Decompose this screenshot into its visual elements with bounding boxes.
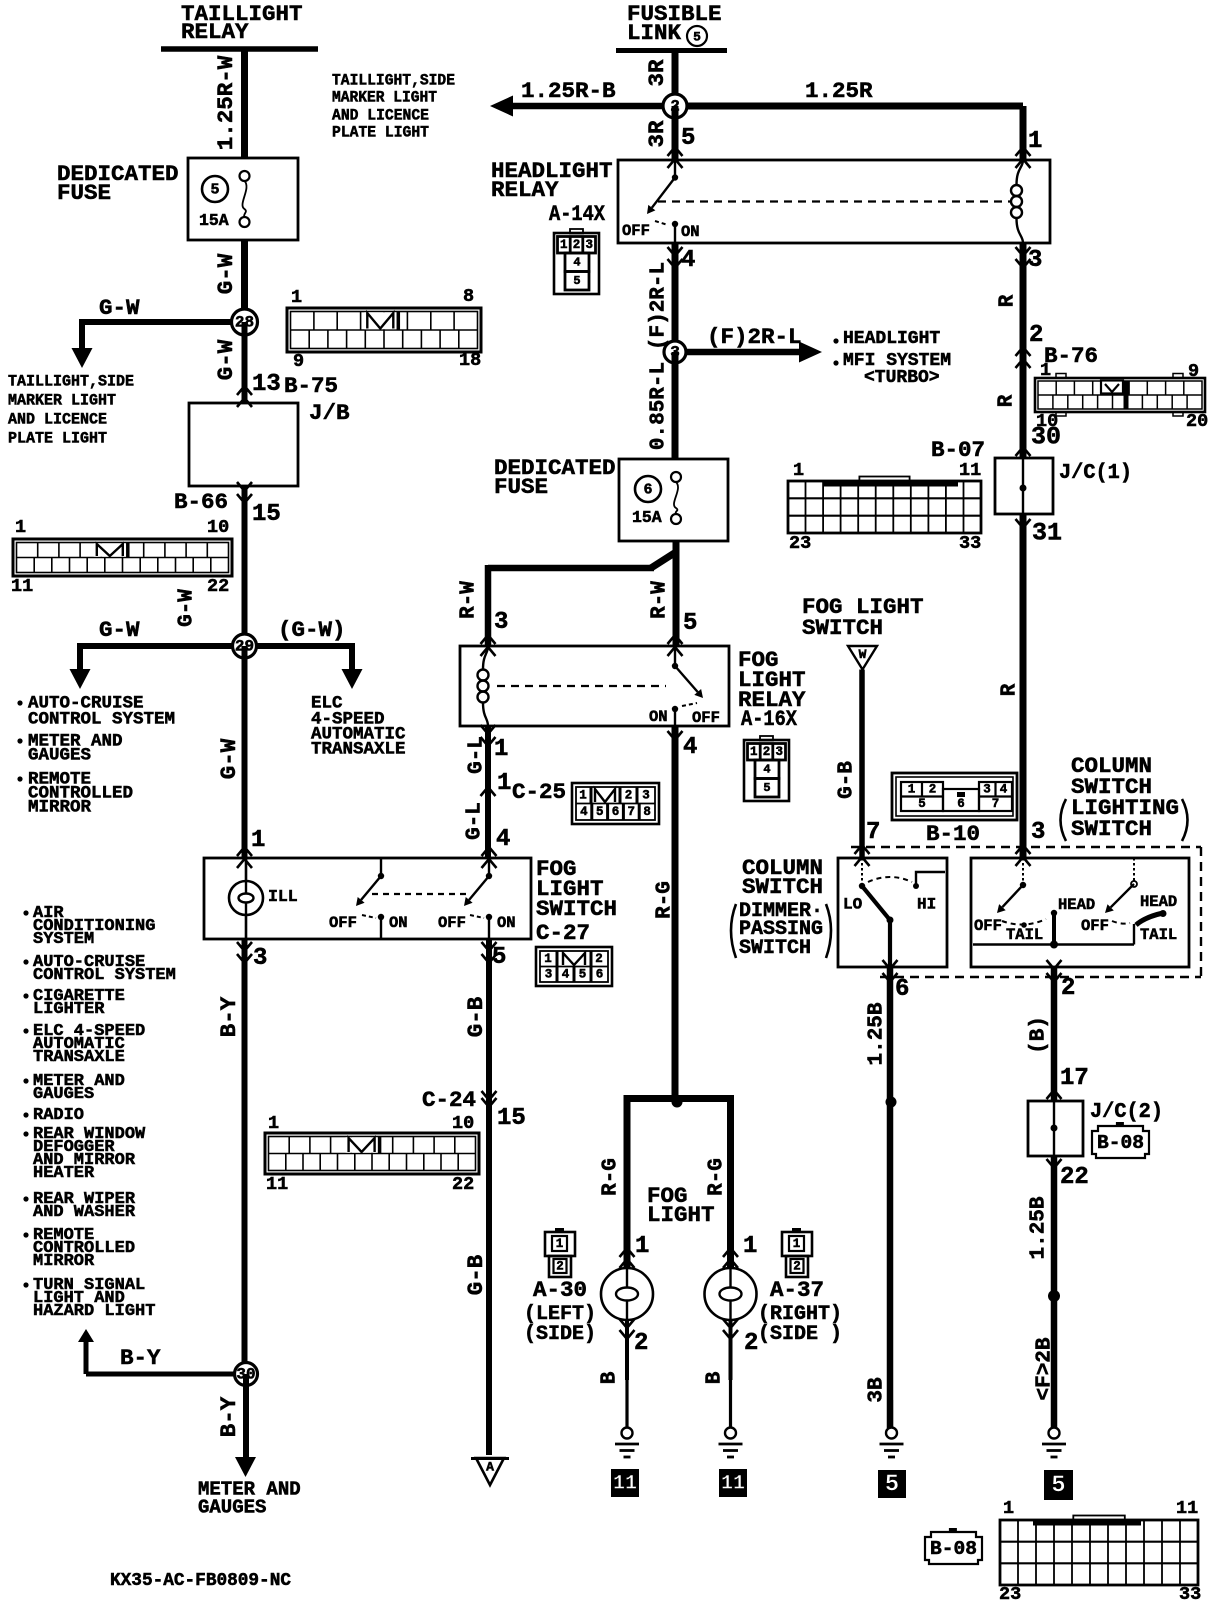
svg-text:R-G: R-G: [706, 1158, 729, 1196]
svg-text:(F)2R-L: (F)2R-L: [707, 324, 802, 350]
svg-text:J/C(2): J/C(2): [1090, 1101, 1163, 1124]
wire R-G right drop: [727, 1095, 734, 1268]
HL relay dashed link: [658, 200, 1010, 202]
svg-text:5: 5: [683, 610, 697, 637]
svg-text:LINK: LINK: [627, 20, 682, 46]
pin 3 chevrons (fog sw out): [237, 942, 252, 963]
ground ref 11 (right): [719, 1469, 747, 1497]
svg-text:G-W: G-W: [213, 339, 239, 380]
svg-text:4: 4: [496, 826, 510, 853]
svg-text:3B: 3B: [866, 1377, 889, 1403]
wire label B-Y bottom: [216, 1396, 242, 1437]
node 29 branch left (auto-cruise etc): [70, 643, 245, 689]
svg-text:R: R: [996, 394, 1019, 407]
svg-text:MIRROR: MIRROR: [28, 798, 92, 818]
pin 3 chevrons (lighting in): [1016, 845, 1031, 866]
svg-text:1: 1: [15, 517, 26, 538]
lighting switch group 1: [973, 858, 1134, 949]
wire B-Y to meter and gauges: [235, 1374, 256, 1477]
pin label 3 (lighting sw): [1031, 819, 1045, 846]
wire 1.25B (J/C2 down): [1048, 1156, 1060, 1428]
pin label 1 (C-25): [497, 770, 511, 797]
label OFF (lighting 2): [1081, 917, 1109, 935]
svg-text:(B): (B): [1028, 1016, 1051, 1054]
label HEAD (lighting 1): [1058, 896, 1095, 914]
wire label G-W small: [176, 589, 199, 627]
wire label G-L 2: [464, 802, 487, 840]
svg-text:1: 1: [497, 770, 511, 797]
ground ref 5 (dimmer): [878, 1470, 906, 1499]
pin 22 chevron (J/C2 out): [1047, 1159, 1062, 1168]
svg-text:MARKER LIGHT: MARKER LIGHT: [8, 392, 116, 410]
svg-text:HEAD: HEAD: [1058, 896, 1095, 914]
svg-text:RELAY: RELAY: [181, 19, 249, 45]
svg-text:23: 23: [789, 533, 811, 554]
connector label C-24: [422, 1087, 476, 1113]
svg-text:8: 8: [463, 286, 474, 307]
svg-text:1.25B: 1.25B: [1028, 1196, 1051, 1259]
svg-text:MIRROR: MIRROR: [33, 1252, 95, 1271]
pin 4 chevrons (fog sw in): [482, 847, 497, 868]
svg-text:G-W: G-W: [99, 617, 140, 643]
wire label G-L 1: [466, 736, 489, 774]
svg-text:LIGHT: LIGHT: [647, 1202, 715, 1228]
svg-text:1: 1: [743, 1233, 757, 1260]
svg-text:B-10: B-10: [926, 821, 980, 847]
svg-text:1: 1: [544, 952, 552, 966]
branch to turn signal (arrow up): [78, 1329, 246, 1374]
ground (left fog light): [615, 1378, 639, 1457]
fog light switch box: [204, 858, 531, 939]
pin label 1 (left lamp): [635, 1233, 649, 1260]
svg-text:C-27: C-27: [536, 920, 590, 946]
svg-text:2: 2: [1029, 322, 1043, 349]
wire label R-W (left): [458, 581, 481, 619]
pin label 4 (fog relay out): [683, 734, 697, 761]
junction connector J/C(1) box: [995, 458, 1053, 514]
wire label 1.25B (dimmer): [866, 1002, 889, 1065]
svg-text:1.25R: 1.25R: [805, 78, 873, 104]
svg-text:TAIL: TAIL: [1006, 926, 1043, 944]
svg-text:4: 4: [580, 805, 588, 819]
wire label (G-W) (right branch): [278, 617, 346, 643]
label DEDICATED FUSE (middle): [494, 455, 616, 500]
ground (dimmer 3B): [880, 1400, 904, 1457]
svg-text:6: 6: [895, 976, 909, 1003]
svg-text:18: 18: [459, 350, 481, 371]
label OFF (lighting 1): [974, 917, 1002, 935]
svg-text:G-L: G-L: [466, 736, 489, 774]
svg-text:CONTROL SYSTEM: CONTROL SYSTEM: [28, 710, 175, 730]
wire G-W (node 29 to fog switch): [242, 646, 248, 858]
svg-text:3R: 3R: [644, 59, 670, 87]
wire label G-W (left branch): [99, 617, 140, 643]
wire label G-W 3: [216, 738, 242, 779]
pin 4 chevrons (HL relay out): [668, 247, 683, 268]
wire label 1.25R-W: [213, 55, 239, 150]
svg-text:1: 1: [793, 460, 804, 481]
pin label 6 (dimmer): [895, 976, 909, 1003]
fuse element (fuse 6): [671, 472, 681, 524]
node 29 branch right (ELC): [245, 643, 363, 689]
svg-text:5: 5: [579, 968, 587, 982]
svg-text:OFF: OFF: [974, 917, 1002, 935]
pin label 30: [1031, 423, 1061, 452]
svg-text:11: 11: [721, 1473, 745, 1496]
svg-text:HEADLIGHT: HEADLIGHT: [843, 329, 940, 349]
svg-text:OFF: OFF: [622, 222, 650, 240]
svg-text:4: 4: [681, 247, 695, 274]
svg-text:1: 1: [1040, 360, 1051, 381]
connector C-24 grid: [265, 1113, 479, 1195]
label LO: [843, 896, 863, 914]
svg-text:5: 5: [885, 1472, 899, 1499]
svg-text:22: 22: [1060, 1164, 1089, 1191]
svg-text:5: 5: [1051, 1473, 1065, 1500]
pin 30 chevron (J/C1 in): [1016, 447, 1031, 456]
label J/B: [309, 400, 350, 426]
svg-text:R-W: R-W: [649, 581, 672, 619]
wire label 3B: [866, 1377, 889, 1403]
node 3 circle: [664, 341, 686, 363]
svg-text:B-07: B-07: [931, 437, 985, 463]
pin label 22: [1060, 1164, 1089, 1191]
wire label (F)2R-L vertical: [648, 262, 671, 350]
node 28: [0, 0, 1, 1]
svg-text:OFF: OFF: [329, 914, 357, 932]
wire R-G (fog relay to fog lights): [672, 726, 679, 1102]
fog relay coil: [478, 646, 489, 726]
connector A-14X icon: [554, 229, 599, 294]
svg-text:GAUGES: GAUGES: [33, 1085, 94, 1104]
svg-text:8: 8: [643, 805, 651, 819]
connector A-30 icon: [545, 1228, 575, 1277]
pin 1 chevrons (fog lamp right): [723, 1248, 738, 1268]
pin label 2 (left lamp): [634, 1330, 648, 1357]
svg-text:5: 5: [918, 797, 926, 811]
svg-text:1: 1: [750, 745, 758, 759]
svg-text:G-W: G-W: [213, 253, 239, 294]
connector B-08 icon (at J/C2): [1092, 1122, 1149, 1158]
svg-text:3: 3: [642, 789, 650, 803]
svg-text:6: 6: [957, 797, 965, 811]
label FOG LIGHT SWITCH (column): [802, 594, 924, 641]
node 28 circle: [232, 309, 258, 335]
svg-text:11: 11: [613, 1473, 637, 1496]
svg-text:1: 1: [1028, 128, 1042, 155]
dimmer switch internals: [859, 858, 945, 967]
off-page connector W (triangle): [848, 646, 877, 670]
wire label 3R: [644, 59, 670, 87]
pin label 1 (HL relay): [1028, 128, 1042, 155]
svg-text:23: 23: [999, 1584, 1021, 1602]
svg-text:20: 20: [1186, 411, 1208, 432]
pin 13 chevrons: [237, 386, 252, 407]
fuse element (fuse 5): [240, 171, 250, 227]
connector B-66 grid: [11, 517, 232, 597]
label FOG LIGHT RELAY: [738, 647, 806, 713]
connector label B-66: [174, 489, 228, 515]
svg-text:3: 3: [983, 783, 991, 797]
pin label 5 (fog relay): [683, 610, 697, 637]
svg-text:1.25R-W: 1.25R-W: [213, 55, 239, 150]
svg-text:R-W: R-W: [458, 581, 481, 619]
svg-text:TAILLIGHT,SIDE: TAILLIGHT,SIDE: [8, 373, 134, 391]
label OFF (fog relay): [692, 709, 720, 727]
wire label R-G: [654, 881, 677, 919]
svg-text:5: 5: [210, 182, 219, 199]
svg-text:GAUGES: GAUGES: [198, 1497, 266, 1519]
dedicated fuse 6 box: [619, 459, 728, 541]
fog light feed junction: [627, 1097, 731, 1108]
pin label 2 (lighting): [1061, 975, 1075, 1002]
junction connector J/C(2) box: [1028, 1101, 1083, 1156]
svg-text:OFF: OFF: [438, 914, 466, 932]
wire (B) (lighting to J/C2): [1051, 967, 1058, 1101]
connector B-08 icon (bottom): [925, 1528, 982, 1564]
svg-text:10: 10: [207, 517, 229, 538]
pin 5 chevrons (fog sw out): [482, 942, 497, 963]
label METER AND GAUGES: [198, 1479, 301, 1519]
wire label G-W (branch): [99, 295, 140, 321]
svg-text:TRANSAXLE: TRANSAXLE: [311, 740, 406, 760]
svg-text:2: 2: [1061, 975, 1075, 1002]
dashed link between switches: [372, 893, 470, 895]
connector label A-16X: [741, 706, 797, 732]
svg-text:R-G: R-G: [654, 881, 677, 919]
svg-text:3: 3: [545, 968, 553, 982]
label FOG LIGHT SWITCH: [536, 856, 617, 922]
load list: air conditioning etc: [23, 904, 175, 1321]
svg-text:HI: HI: [917, 896, 936, 914]
pin 1 chevrons (fog relay out): [481, 725, 496, 746]
svg-text:C-25: C-25: [512, 779, 566, 805]
pin 2 chevrons (left lamp): [620, 1319, 635, 1339]
wire label R-G right: [706, 1158, 729, 1196]
wire R (B-76 to J/C1): [1020, 243, 1027, 458]
svg-text:(SIDE ): (SIDE ): [758, 1323, 842, 1346]
pin 6 chevrons (dimmer out): [883, 960, 898, 982]
connector label B-07: [931, 437, 985, 463]
svg-text:B-08: B-08: [930, 1538, 977, 1560]
wire label G-W 2: [213, 339, 239, 380]
svg-text:2: 2: [573, 238, 581, 252]
label HEAD (lighting 2): [1140, 893, 1177, 911]
label A-37 (RIGHT SIDE): [758, 1277, 842, 1346]
svg-text:1: 1: [251, 827, 265, 854]
svg-text:RADIO: RADIO: [33, 1106, 84, 1125]
wire 1.25R (node 2 to headlight relay): [675, 106, 1023, 160]
pin label 2 (B-76): [1029, 322, 1043, 349]
svg-text:1: 1: [908, 783, 916, 797]
svg-text:RELAY: RELAY: [491, 177, 559, 203]
svg-text:OFF: OFF: [1081, 917, 1109, 935]
svg-text:AND LICENCE: AND LICENCE: [332, 107, 429, 125]
svg-text:G-W: G-W: [176, 589, 199, 627]
svg-text:G-B: G-B: [463, 1254, 489, 1295]
svg-text:CONTROL SYSTEM: CONTROL SYSTEM: [33, 966, 176, 985]
svg-text:2: 2: [744, 1330, 758, 1357]
connector A-37 icon: [782, 1228, 812, 1277]
wire label G-B (column): [836, 761, 859, 799]
wire R-G left drop: [624, 1095, 631, 1268]
svg-text:11: 11: [266, 1174, 288, 1195]
svg-text:7: 7: [866, 819, 880, 846]
svg-text:3: 3: [253, 945, 267, 972]
svg-text:B-Y: B-Y: [216, 1396, 242, 1437]
wire label R 3: [999, 683, 1022, 696]
svg-text:R: R: [999, 683, 1022, 696]
pin label 3: [253, 945, 267, 972]
svg-text:AND WASHER: AND WASHER: [33, 1203, 136, 1222]
fog light bulb right: [705, 1268, 757, 1320]
label OFF (sw1): [329, 914, 357, 932]
label ON (sw2): [497, 914, 516, 932]
connector C-25 icon: [572, 783, 659, 824]
svg-text:1.25B: 1.25B: [866, 1002, 889, 1065]
svg-text:HEAD: HEAD: [1140, 893, 1177, 911]
svg-text:17: 17: [1060, 1065, 1089, 1092]
svg-text:4: 4: [683, 734, 697, 761]
svg-text:4: 4: [1000, 783, 1008, 797]
pin 17 chevron (J/C2 in): [1047, 1090, 1062, 1099]
label J/C(2): [1090, 1101, 1163, 1124]
node 29 circle: [233, 634, 257, 658]
pin 4 chevron (fog relay out): [668, 731, 683, 740]
wire label B right: [704, 1371, 727, 1384]
ground (right fog light): [719, 1378, 743, 1457]
svg-text:W: W: [859, 647, 867, 662]
connector B-76 grid: [1035, 360, 1208, 432]
wire label B-Y (branch): [120, 1345, 161, 1371]
svg-text:ON: ON: [649, 708, 668, 726]
svg-text:1: 1: [494, 736, 508, 763]
svg-text:3: 3: [1031, 819, 1045, 846]
svg-text:3: 3: [775, 745, 783, 759]
svg-text:GAUGES: GAUGES: [28, 746, 91, 766]
svg-text:(G-W): (G-W): [278, 617, 346, 643]
svg-text:13: 13: [252, 371, 281, 398]
wire label R-W (right): [649, 581, 672, 619]
wire label R 2: [996, 394, 1019, 407]
svg-text:15: 15: [252, 501, 281, 528]
svg-text:AND LICENCE: AND LICENCE: [8, 411, 107, 429]
svg-text:SWITCH: SWITCH: [802, 615, 883, 641]
connector A-16X icon: [744, 736, 789, 801]
label ON (fog relay): [649, 708, 668, 726]
svg-text:1: 1: [560, 238, 568, 252]
svg-text:3R: 3R: [644, 120, 670, 148]
svg-text:7: 7: [992, 797, 1000, 811]
label FOG LIGHT: [647, 1183, 715, 1228]
wire 0.85R-L (node 3 to fuse 6): [672, 352, 679, 459]
wire label G-B: [463, 996, 489, 1037]
svg-text:33: 33: [959, 533, 981, 554]
connector label B-10: [926, 821, 980, 847]
svg-text:3: 3: [585, 238, 593, 252]
lighting switch group 2: [1105, 858, 1167, 945]
label HEADLIGHT RELAY: [491, 158, 613, 203]
svg-text:6: 6: [643, 482, 652, 499]
connector label A-14X: [549, 201, 605, 227]
pin 1 chevrons (fog lamp left): [620, 1248, 635, 1268]
pin 1 chevrons: [237, 847, 252, 868]
pin label 1 (fog relay out): [494, 736, 508, 763]
label 15A (fuse 5): [199, 211, 229, 230]
pin label 15: [252, 501, 281, 528]
circled 6: [635, 476, 661, 502]
ground ref 5 (lighting): [1044, 1470, 1073, 1500]
C-25 crossing chevron: [481, 787, 496, 796]
connector B-75 grid: [287, 286, 481, 372]
wire label 1.25R-B: [521, 78, 616, 104]
label TAILLIGHT RELAY: [181, 1, 303, 45]
svg-text:KX35-AC-FB0809-NC: KX35-AC-FB0809-NC: [110, 1571, 291, 1591]
svg-text:1: 1: [635, 1233, 649, 1260]
load list: headlight, MFI system (turbo): [833, 329, 951, 388]
wire B left: [625, 1320, 629, 1380]
svg-text:2: 2: [763, 745, 771, 759]
wire label (F)2R-L: [707, 324, 802, 350]
svg-text:HEATER: HEATER: [33, 1164, 95, 1183]
pin 1 chevrons (HL relay in): [1016, 147, 1031, 168]
svg-text:ON: ON: [497, 914, 516, 932]
label ILL: [268, 887, 298, 906]
pin 3 chevrons (HL relay out): [1016, 247, 1031, 268]
svg-text:1: 1: [291, 287, 302, 308]
junction block J/B box: [189, 403, 298, 486]
HL relay coil: [1011, 160, 1023, 243]
svg-text:2: 2: [556, 1260, 564, 1274]
svg-text:33: 33: [1179, 1584, 1201, 1602]
connector label C-27: [536, 920, 590, 946]
svg-text:ILL: ILL: [268, 887, 298, 906]
svg-text:5: 5: [681, 125, 695, 152]
switch 2 (fog sw): [464, 858, 492, 939]
wire label 0.85R-L: [648, 362, 671, 450]
wire label B left: [599, 1371, 622, 1384]
pin label 15 (C-24): [497, 1105, 526, 1132]
HL relay switch: [647, 160, 678, 243]
svg-text:2: 2: [595, 952, 603, 966]
pin 5 chevrons (fog relay in): [668, 635, 683, 656]
connector B-07 grid: [788, 460, 981, 554]
svg-text:PLATE LIGHT: PLATE LIGHT: [332, 124, 429, 142]
label A-30 (LEFT SIDE): [524, 1277, 596, 1346]
wire 1.25R-W: [241, 49, 248, 158]
svg-text:B: B: [704, 1371, 727, 1384]
svg-text:(F)2R-L: (F)2R-L: [648, 262, 671, 350]
svg-text:MARKER LIGHT: MARKER LIGHT: [332, 89, 437, 107]
wire label 3R 2: [644, 120, 670, 148]
B-76 crossing chevrons: [1016, 347, 1031, 368]
wire G-B (fog sw down): [486, 939, 492, 1455]
svg-text:3: 3: [494, 609, 508, 636]
svg-text:15A: 15A: [199, 211, 229, 230]
column switch (dimmer-passing) box: [838, 858, 947, 967]
svg-text:SWITCH: SWITCH: [1071, 816, 1152, 842]
svg-text:4: 4: [573, 256, 580, 270]
branch (F)2R-L to headlight (arrow right): [675, 342, 822, 363]
headlight relay box: [618, 160, 1050, 243]
svg-text:15: 15: [497, 1105, 526, 1132]
svg-text:1: 1: [556, 1237, 564, 1251]
connector B-10 icon: [892, 773, 1017, 820]
svg-text:ON: ON: [681, 223, 700, 241]
svg-text:J/C(1): J/C(1): [1059, 462, 1132, 485]
node 2 circle: [663, 94, 687, 118]
label ON (HL relay): [681, 223, 700, 241]
